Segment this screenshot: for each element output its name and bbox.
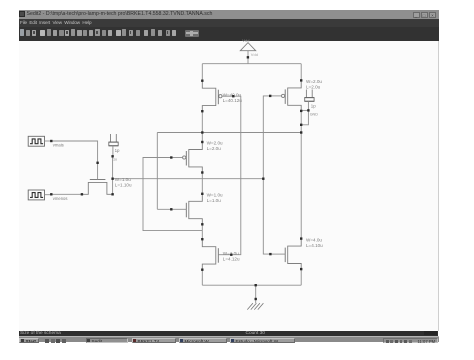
svg-text:W=4.0u: W=4.0u: [306, 238, 322, 243]
voltage source V1 (vmais): [28, 136, 51, 146]
wire input node (M7 drain to gates of M2/M6): [113, 178, 264, 180]
svg-text:1p: 1p: [115, 148, 120, 153]
wire M1 source to M3 drain: [201, 111, 203, 142]
svg-text:L=4.12u: L=4.12u: [223, 257, 240, 262]
wire rail to M1 source: [201, 64, 203, 81]
transistor M1 (PMOS top-left, mirrored): [202, 81, 233, 112]
label C2 value 1p: [310, 104, 319, 117]
node Vdd label: [242, 38, 258, 57]
taskbar: [19, 336, 439, 342]
svg-text:L=1.10u: L=1.10u: [115, 183, 132, 188]
transistor M7 (NMOS input, rotated gate-up): [82, 163, 113, 195]
svg-text:1o: 1o: [113, 157, 117, 161]
wire M3 gate to M5 drain node: [143, 158, 202, 231]
svg-text:GND: GND: [310, 112, 319, 116]
wire M5 source to ground rail: [201, 270, 203, 286]
svg-text:vmais: vmais: [53, 142, 64, 147]
wire ground rail: [202, 284, 301, 286]
transistor M5 (NMOS bottom-left, mirrored): [202, 239, 231, 270]
wire M3 source to M4 drain: [201, 173, 203, 194]
svg-text:Vdd: Vdd: [242, 38, 249, 43]
wire M2 drain column: [300, 111, 302, 239]
transistor M2 (PMOS top-right): [270, 80, 301, 111]
wire mirror node drop to M4 gate: [157, 133, 171, 210]
transistor M3 (PMOS middle): [171, 142, 202, 173]
transistor M4 (NMOS middle): [171, 194, 202, 225]
wire V2 to M7 source: [51, 193, 82, 195]
label M7 values: [115, 177, 132, 188]
wire M4 source to M5 drain: [201, 224, 203, 239]
svg-text:vmenos: vmenos: [53, 196, 68, 201]
svg-text:Vdd: Vdd: [251, 52, 258, 57]
wire Vdd rail: [202, 63, 301, 65]
voltage source V2 (vmenos): [28, 190, 51, 200]
svg-text:W=2.0u: W=2.0u: [306, 79, 322, 84]
label M3 values: [207, 141, 223, 152]
capacitor C2 (1p): [305, 90, 314, 111]
wire rail to M2 source: [300, 64, 302, 81]
svg-text:W=1.0u: W=1.0u: [207, 193, 223, 198]
wire C1 to M7 drain: [112, 156, 114, 194]
label M4 values: [207, 193, 223, 204]
capacitor C1 (1p load): [109, 134, 118, 156]
toolbar: [19, 27, 439, 41]
wire mirror node (M1/M3 drain to M2 drain): [157, 132, 301, 134]
schematic canvas: [19, 41, 439, 331]
menu bar: [19, 19, 439, 27]
svg-text:L=1.0u: L=1.0u: [207, 198, 222, 203]
label M2 values: [306, 79, 322, 90]
wire M2 drain to C2: [301, 109, 308, 111]
svg-text:W=40.0u: W=40.0u: [223, 92, 242, 97]
transistor M6 (NMOS bottom-right): [270, 239, 301, 270]
status bar: [19, 331, 439, 337]
svg-text:W=1.0u: W=1.0u: [115, 177, 131, 182]
wire M1 gate to M5 gate: [231, 96, 241, 255]
power symbol Vdd: [240, 43, 255, 64]
svg-text:1p: 1p: [311, 104, 316, 109]
wire M6 source to ground rail: [300, 269, 302, 285]
label C1 value 1p: [113, 148, 120, 162]
label M6 values: [306, 238, 323, 249]
application window title bar: [19, 10, 439, 20]
label M1 values: [223, 92, 243, 103]
svg-text:L=4.10u: L=4.10u: [306, 243, 323, 248]
wire C2 bottom return: [301, 110, 308, 124]
wire V1 to M7 gate: [51, 141, 97, 163]
svg-text:L=2.0u: L=2.0u: [306, 84, 321, 89]
label V2 vmenos: [53, 196, 68, 201]
svg-text:L=40.12u: L=40.12u: [223, 98, 243, 103]
label M5 values: [223, 251, 240, 262]
wire M2 gate to M6 gate: [263, 96, 270, 254]
ground symbol: [247, 285, 263, 309]
label V1 vmais: [53, 142, 64, 147]
svg-text:W=2.0u: W=2.0u: [207, 141, 223, 146]
svg-text:L=2.0u: L=2.0u: [207, 146, 222, 151]
